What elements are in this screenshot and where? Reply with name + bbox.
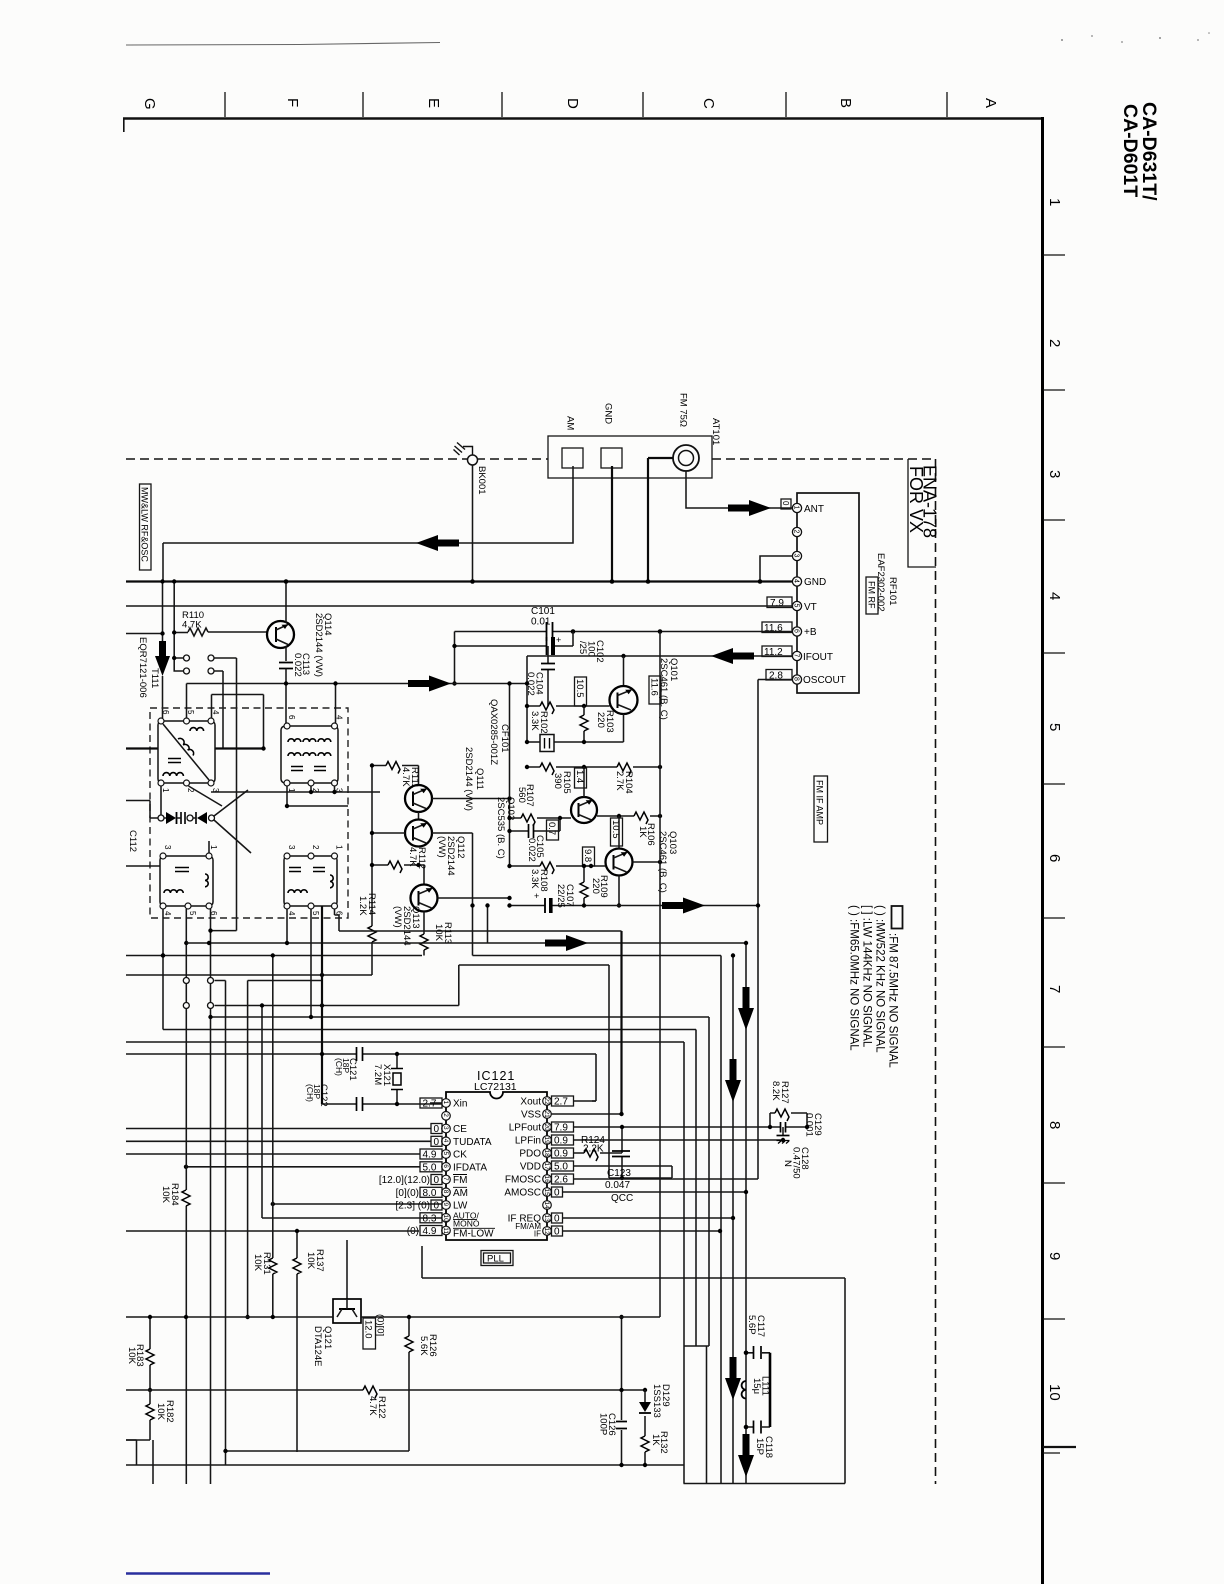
FM IF AMP boxed label <box>814 776 828 842</box>
svg-text:390: 390 <box>552 773 563 789</box>
svg-text:FMOSC: FMOSC <box>505 1175 541 1186</box>
IC121 left pin labels <box>453 1099 494 1240</box>
wire VSS <box>551 1113 621 1115</box>
svg-text:EQR7121-006: EQR7121-006 <box>137 637 148 698</box>
Q112 2SD2144 (VW) <box>405 820 432 847</box>
arrow right on bus y943 <box>545 935 588 951</box>
svg-text:[2.3] (0): [2.3] (0) <box>396 1201 430 1212</box>
svg-text:0.047: 0.047 <box>605 1180 630 1191</box>
svg-text:CF101: CF101 <box>499 724 510 753</box>
capacitor C123 <box>621 1127 623 1178</box>
svg-text:CE: CE <box>453 1124 467 1135</box>
svg-text:22/25: 22/25 <box>555 884 566 908</box>
svg-text:0.001: 0.001 <box>804 1113 815 1137</box>
R183 10K <box>149 1317 151 1390</box>
svg-text:[0](0): [0](0) <box>396 1188 419 1199</box>
boxed voltage 7.9 <box>767 597 792 608</box>
boxed voltage 11.6 <box>762 622 792 633</box>
wire Q112 collector right <box>432 833 473 956</box>
svg-text:2SD2144 (VW): 2SD2144 (VW) <box>313 613 324 677</box>
svg-text:4: 4 <box>1046 592 1063 600</box>
line y1317 right segment <box>226 1317 410 1451</box>
riser x609 C123 loop <box>609 965 672 1178</box>
svg-text:( ) :FM65.0MHz NO SIGNAL: ( ) :FM65.0MHz NO SIGNAL <box>848 905 860 1051</box>
wire CK line <box>126 1153 420 1155</box>
MW&LW RF&OSC boxed label <box>140 484 152 570</box>
R112 4.7K <box>372 865 424 885</box>
arrow right on IF output <box>662 898 705 914</box>
svg-text:D: D <box>564 98 581 109</box>
svg-text:15μ: 15μ <box>751 1378 762 1394</box>
svg-text:0.7: 0.7 <box>546 822 557 835</box>
svg-text:IFOUT: IFOUT <box>803 652 833 663</box>
IF output line with arrow <box>510 898 759 913</box>
boxed voltage 11.2 <box>762 646 792 657</box>
crystal X121 7.2M <box>396 1054 398 1104</box>
svg-text:3: 3 <box>442 1126 449 1130</box>
svg-text:(VW): (VW) <box>436 836 447 858</box>
IC121 right voltage boxes <box>552 1096 574 1106</box>
svg-text:4.9: 4.9 <box>423 1150 437 1161</box>
svg-text:4.7K: 4.7K <box>182 620 202 631</box>
R102 3.3K <box>527 705 610 707</box>
svg-text:17: 17 <box>543 1163 550 1171</box>
svg-text:1: 1 <box>793 506 800 510</box>
legend box symbol <box>892 906 903 929</box>
R104 2.7K <box>617 763 631 775</box>
svg-text:5.0: 5.0 <box>423 1162 437 1173</box>
svg-text:+: + <box>556 635 561 645</box>
bus y1055 with C121 <box>126 1053 596 1055</box>
switch contacts row 3 <box>215 981 226 1466</box>
wires BL/BR bottom pins to buses <box>163 909 339 1484</box>
page edge scan line top-left <box>126 43 440 46</box>
switch contacts row 2 <box>174 658 223 749</box>
svg-text:16: 16 <box>543 1176 550 1184</box>
svg-text:11.6: 11.6 <box>764 623 783 634</box>
R137 10K <box>296 1231 298 1452</box>
svg-text:FM IF AMP: FM IF AMP <box>815 780 825 825</box>
switch contacts row 1 <box>174 582 236 931</box>
svg-text:Xout: Xout <box>520 1097 541 1108</box>
dashed boundary FOR VX top <box>126 458 935 460</box>
wire TR pin4 up to IF line <box>335 684 337 724</box>
BK001 <box>468 455 478 465</box>
svg-text:20: 20 <box>543 1124 550 1132</box>
line y1451 jog <box>126 1440 137 1465</box>
bottom rail y1465 <box>126 1464 684 1466</box>
svg-text:0: 0 <box>434 1124 440 1135</box>
T111 dashed outline <box>150 708 348 918</box>
svg-text:2.7: 2.7 <box>554 1097 568 1108</box>
wire IFOUT line <box>527 655 793 657</box>
svg-text:PLL: PLL <box>487 1254 504 1265</box>
ceramic filter CF101 <box>540 735 554 752</box>
boxed 1.4 test point <box>575 768 587 788</box>
GND bus <box>126 580 793 582</box>
svg-text:7.9: 7.9 <box>770 598 784 609</box>
svg-text:5.6K: 5.6K <box>418 1336 429 1356</box>
wire IFDATA line <box>186 1166 420 1168</box>
IC121 right pin labels <box>504 1097 541 1239</box>
bus y955 <box>126 955 721 957</box>
grid letter ticks <box>225 92 947 117</box>
grid letters G F E D C B A <box>141 98 999 110</box>
arrow right on ANT wire <box>728 500 771 516</box>
R131 10K <box>272 956 274 1318</box>
line y1390 with R122 <box>126 1389 645 1391</box>
FM 75ohm jack <box>673 445 699 471</box>
VT line <box>126 605 793 607</box>
IC121 left voltage boxes <box>420 1098 442 1108</box>
wire T111 pin4 riser <box>212 695 264 749</box>
svg-text:F: F <box>284 98 301 107</box>
svg-text:10K: 10K <box>160 1186 171 1204</box>
wire CE line <box>126 1128 431 1130</box>
svg-text:8: 8 <box>1046 1121 1063 1129</box>
IC121 left pins 1-11 <box>442 1099 451 1235</box>
svg-text:AM: AM <box>453 1188 468 1199</box>
OSCOUT riser x758 <box>758 680 793 1180</box>
wire FM jack shield to bus <box>648 458 673 582</box>
svg-text:1: 1 <box>335 845 344 850</box>
svg-text:1.2K: 1.2K <box>357 896 368 916</box>
svg-text:2.2K: 2.2K <box>583 1144 604 1155</box>
grid number ticks <box>1043 255 1065 1319</box>
wire Q103 collector up / right <box>619 816 660 862</box>
R182 10K <box>126 1390 150 1440</box>
svg-text:ENA-178: ENA-178 <box>920 465 940 538</box>
svg-text:+: + <box>534 891 539 901</box>
wire Xout loop <box>592 1054 596 1101</box>
wire VDD <box>574 1165 673 1167</box>
Q114 2SD2144 (VW) <box>267 621 294 648</box>
boxed 10.5 test point <box>575 677 587 706</box>
wire Q111 emitter to Q112 <box>418 812 420 820</box>
R107 560 base line <box>510 817 572 819</box>
svg-text:7: 7 <box>1046 985 1063 993</box>
svg-text:1K: 1K <box>637 826 648 838</box>
svg-text:220: 220 <box>590 878 601 894</box>
wire IF REQ <box>563 1217 734 1219</box>
wire AM terminal to left arrow <box>163 466 573 582</box>
svg-text:LPFout: LPFout <box>509 1123 541 1134</box>
wire FM/AM IF <box>563 1230 721 1232</box>
svg-text:6: 6 <box>1046 854 1063 862</box>
wire GND terminal down to bus <box>611 466 613 582</box>
wire FM jack to ANT pin <box>686 471 792 508</box>
svg-text:4: 4 <box>442 1139 449 1143</box>
wire Q101 emitter down <box>554 714 624 742</box>
svg-text:(CH): (CH) <box>334 1058 344 1076</box>
svg-text:3: 3 <box>163 845 172 850</box>
riser x621 VSS <box>620 931 622 1114</box>
svg-text:5: 5 <box>311 911 320 916</box>
svg-text:TUDATA: TUDATA <box>453 1137 492 1148</box>
svg-text:3: 3 <box>793 554 800 558</box>
svg-text:7: 7 <box>442 1177 449 1181</box>
svg-text:560: 560 <box>516 787 527 803</box>
svg-text:C123: C123 <box>607 1168 631 1179</box>
svg-text:IF: IF <box>534 1230 541 1239</box>
svg-text:C101: C101 <box>531 606 555 617</box>
svg-text:FM 75Ω: FM 75Ω <box>678 393 689 427</box>
R132 1K <box>641 1436 649 1452</box>
svg-text:FM RF: FM RF <box>867 581 877 609</box>
Q121 DTA124E <box>346 1240 348 1299</box>
wire Q114 collector up / emitter down <box>285 582 287 662</box>
PLL boxed label <box>481 1251 513 1266</box>
Q113 2SD2144 (VW) <box>411 885 438 912</box>
wire T111 pin5 to IF line <box>186 684 188 719</box>
R109 220 <box>583 866 585 906</box>
svg-text:15: 15 <box>543 1189 550 1197</box>
svg-text:12.0: 12.0 <box>363 1320 374 1339</box>
frame border top edge <box>123 117 1042 119</box>
riser x707 <box>695 1030 697 1347</box>
svg-text:OSCOUT: OSCOUT <box>803 675 846 686</box>
svg-text:3.3K: 3.3K <box>529 869 540 889</box>
svg-text:11: 11 <box>442 1227 449 1234</box>
wire BK001 to bus <box>472 465 474 582</box>
loop under IC121 <box>422 1246 845 1484</box>
boxed 0 at ANT pin <box>781 499 791 509</box>
capacitor C113 <box>279 663 293 669</box>
boxed 11.6 test point <box>649 676 661 704</box>
svg-text:4: 4 <box>211 710 220 715</box>
R111 4.7K <box>372 766 419 786</box>
svg-text:220: 220 <box>595 712 606 728</box>
GND terminal <box>601 448 622 468</box>
svg-text:MW&LW RF&OSC: MW&LW RF&OSC <box>140 487 150 562</box>
wire TL pin1 to varactor <box>160 786 162 815</box>
transformer T111 winding A (top-left) <box>158 710 220 793</box>
svg-text:4.7K: 4.7K <box>400 767 411 787</box>
svg-text:5.0: 5.0 <box>554 1162 568 1173</box>
svg-text:5.6P: 5.6P <box>746 1315 757 1335</box>
R126 5.6K <box>405 1336 413 1352</box>
RF101 pins <box>792 503 801 684</box>
capacitor C121 <box>357 1047 363 1061</box>
svg-text:0.9: 0.9 <box>554 1136 568 1147</box>
svg-text:5: 5 <box>793 604 800 608</box>
wire into BL transformer <box>126 865 160 867</box>
svg-text:C112: C112 <box>127 830 138 852</box>
svg-text:12: 12 <box>543 1228 550 1236</box>
svg-text:1: 1 <box>209 845 218 850</box>
svg-text:2: 2 <box>311 845 320 850</box>
R106 1K emitter line <box>597 815 660 817</box>
svg-text:T111: T111 <box>149 668 160 688</box>
svg-text:AM: AM <box>565 416 576 430</box>
riser x684 <box>683 1042 685 1484</box>
dashed boundary FOR VX right side <box>935 459 937 1484</box>
capacitor C105 <box>510 818 561 831</box>
svg-text:21: 21 <box>543 1111 550 1119</box>
svg-text:QAX0285-001Z: QAX0285-001Z <box>488 699 499 765</box>
svg-text:3.3K: 3.3K <box>529 711 540 731</box>
svg-text:10K: 10K <box>126 1347 137 1365</box>
svg-text:GND: GND <box>603 403 614 424</box>
wire Q101 collector up <box>623 656 625 686</box>
svg-text:B: B <box>837 98 854 108</box>
riser x733 down <box>732 956 734 1484</box>
pin labels <box>803 504 846 686</box>
diagonal wires from varactor <box>214 790 251 853</box>
wire Q102 collector up <box>583 767 585 797</box>
svg-text:1SS133: 1SS133 <box>651 1384 662 1418</box>
svg-text:0: 0 <box>434 1201 440 1212</box>
svg-text:0: 0 <box>554 1227 560 1238</box>
svg-text:Xin: Xin <box>453 1099 467 1110</box>
R108 3.3K base line <box>510 865 606 867</box>
IC121 right pins 22-12 <box>543 1097 552 1236</box>
svg-text:AMOSC: AMOSC <box>504 1188 541 1199</box>
svg-text:7.9: 7.9 <box>554 1123 568 1134</box>
tank link x770 <box>769 1353 772 1427</box>
wire arrow to T111 pin6 <box>162 676 164 718</box>
svg-text:LPFin: LPFin <box>515 1136 541 1147</box>
svg-text:PDO: PDO <box>519 1149 541 1160</box>
svg-text:VT: VT <box>804 602 817 613</box>
svg-text:9: 9 <box>442 1203 449 1207</box>
svg-text:+B: +B <box>804 627 817 638</box>
C102top bus / riser x509 <box>509 684 511 867</box>
svg-text:8.3: 8.3 <box>423 1213 437 1224</box>
svg-text:10: 10 <box>1046 1384 1063 1401</box>
wire LPFin line <box>574 1139 784 1141</box>
Q101 2SC461 (B,C) <box>610 686 638 714</box>
AM terminal <box>562 448 583 468</box>
wire FM-LOW line <box>126 1230 419 1232</box>
capacitor C129 <box>781 1122 786 1133</box>
wire Q113 collector right <box>438 897 510 899</box>
svg-text:15P: 15P <box>754 1438 765 1455</box>
grid numbers 1-10 <box>1046 198 1063 1401</box>
wire Q112 base from left <box>372 832 405 834</box>
svg-text:0.022: 0.022 <box>526 838 537 862</box>
wire TUDATA line <box>126 1140 431 1142</box>
wire Q103 emitter down <box>618 876 620 906</box>
wire FMOSC to OSCOUT riser <box>574 1178 759 1180</box>
svg-text:/25: /25 <box>577 641 588 654</box>
svg-text:8: 8 <box>793 677 800 681</box>
capacitor C101 <box>547 622 553 641</box>
svg-text:VSS: VSS <box>521 1110 541 1121</box>
svg-text:3: 3 <box>287 845 296 850</box>
riser x720 <box>708 1017 710 1346</box>
footer blue rule <box>126 1572 270 1575</box>
svg-text:10K: 10K <box>433 924 444 942</box>
svg-text:DTA124E: DTA124E <box>312 1326 323 1366</box>
riser x721 <box>720 956 722 1484</box>
varactor diode pair C111/C112 <box>158 815 164 821</box>
svg-text:7: 7 <box>793 654 800 658</box>
svg-text:6: 6 <box>442 1164 449 1168</box>
arrow right on IF line <box>408 676 451 692</box>
arrow down on x733 <box>725 1059 741 1102</box>
svg-text:ANT: ANT <box>804 504 824 515</box>
Q111 2SD2144 (VW) <box>405 785 432 812</box>
svg-text:VDD: VDD <box>520 1162 541 1173</box>
svg-text:QCC: QCC <box>611 1193 633 1204</box>
svg-text:10K: 10K <box>305 1252 316 1270</box>
L111 15u coil <box>742 1381 746 1399</box>
boxed 0.7 test point <box>547 820 559 840</box>
capacitor C122 <box>321 906 323 1104</box>
svg-text:0: 0 <box>434 1175 440 1186</box>
svg-text:100P: 100P <box>598 1413 609 1435</box>
FOR VX ENA-178 label box <box>908 459 936 567</box>
svg-text:1: 1 <box>442 1101 449 1105</box>
arrow left on AM wire <box>416 535 459 551</box>
boxed 9.8 test point <box>583 847 595 866</box>
svg-text:(CH): (CH) <box>305 1084 315 1102</box>
svg-text:10: 10 <box>442 1215 449 1223</box>
svg-text:(VW): (VW) <box>392 906 403 928</box>
riser x153 bottom <box>152 1440 154 1484</box>
svg-text:4.7K: 4.7K <box>367 1396 378 1416</box>
svg-text:10K: 10K <box>155 1403 166 1421</box>
svg-text:FM: FM <box>453 1175 467 1186</box>
wire Q111 collector right <box>432 798 510 800</box>
svg-text:IFDATA: IFDATA <box>453 1162 487 1173</box>
svg-text:CA-D601T: CA-D601T <box>1119 104 1141 197</box>
Q103 2SC461 (B,C) <box>606 849 633 876</box>
svg-text:5: 5 <box>1046 723 1063 731</box>
C117 5.6P <box>746 1352 770 1354</box>
C118 15P <box>746 1426 770 1428</box>
transformer T111 winding D (bottom-right) <box>284 845 344 916</box>
transformer T111 winding C (bottom-left) <box>160 845 218 916</box>
svg-text:2SC535 (B. C): 2SC535 (B. C) <box>495 797 506 859</box>
BK001 ground <box>454 443 473 456</box>
svg-text:6: 6 <box>161 710 170 715</box>
wire LPFout line <box>574 1126 808 1128</box>
svg-text:CK: CK <box>453 1150 467 1161</box>
svg-text:[ ] :LW 144KHz NO SIGNAL: [ ] :LW 144KHz NO SIGNAL <box>861 905 873 1048</box>
bus y1017 <box>211 1016 710 1018</box>
R127 8.2K / C129 network <box>770 1113 807 1127</box>
arrow left on IFOUT <box>711 648 754 664</box>
svg-text:10K: 10K <box>252 1254 263 1272</box>
svg-text:BK001: BK001 <box>476 466 487 495</box>
R124 2.2K <box>574 1152 623 1154</box>
wire into T111 left <box>126 747 264 749</box>
boxed 10.5 test point <box>611 818 623 846</box>
svg-text:E: E <box>425 98 442 108</box>
arrow down x746 lower <box>738 1434 754 1477</box>
svg-text:0: 0 <box>781 501 790 506</box>
svg-text:1K: 1K <box>650 1434 661 1446</box>
wire Xout to crystal rail <box>551 1100 596 1102</box>
svg-text:MONO: MONO <box>453 1219 480 1229</box>
bus y1029 <box>163 1029 696 1031</box>
svg-text:14: 14 <box>543 1202 550 1210</box>
svg-text:0.022: 0.022 <box>525 672 536 696</box>
svg-text:3: 3 <box>1046 470 1063 478</box>
D129 1SS133 <box>644 1390 646 1436</box>
arrow down on x746 <box>738 987 754 1030</box>
bus y975 <box>126 974 372 976</box>
wire T111 varactor feed <box>126 801 158 819</box>
svg-text:0: 0 <box>554 1214 560 1225</box>
frame border right edge <box>1041 117 1044 1584</box>
boxed voltage 2.8 <box>766 670 792 681</box>
AT101 connector box <box>548 436 712 478</box>
svg-text:0: 0 <box>434 1137 440 1148</box>
riser x746 down <box>745 943 747 1484</box>
